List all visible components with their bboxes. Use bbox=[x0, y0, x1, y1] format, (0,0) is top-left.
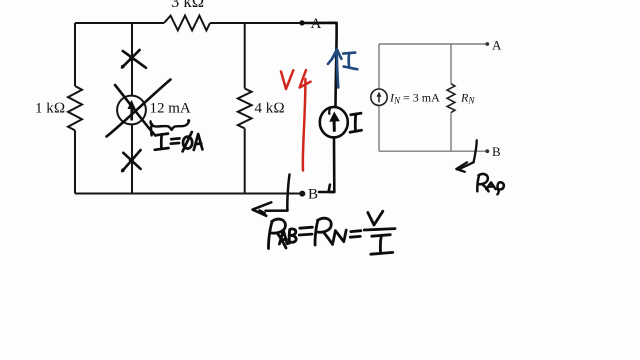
svg-text:B: B bbox=[492, 144, 501, 159]
svg-text:3 kΩ: 3 kΩ bbox=[171, 0, 204, 11]
svg-text:IN = 3 mA: IN = 3 mA bbox=[389, 91, 440, 106]
svg-text:A: A bbox=[492, 37, 502, 52]
svg-text:12 mA: 12 mA bbox=[150, 101, 191, 117]
svg-text:B: B bbox=[308, 187, 318, 203]
svg-text:4 kΩ: 4 kΩ bbox=[255, 101, 285, 117]
svg-text:RN: RN bbox=[460, 91, 475, 106]
svg-text:1 kΩ: 1 kΩ bbox=[35, 101, 65, 117]
